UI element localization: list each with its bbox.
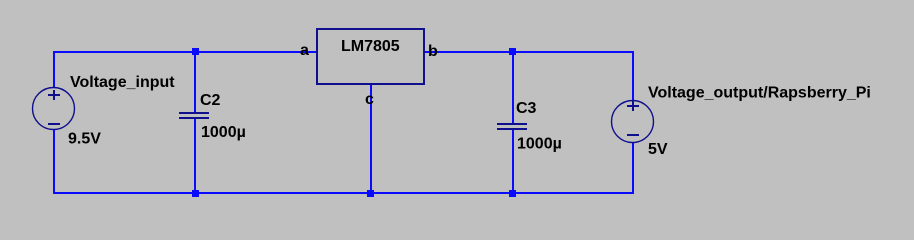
- op-amp U1 LM7805 regulator box: [317, 29, 424, 84]
- svg-text:a: a: [300, 42, 309, 59]
- wire top rail from V1 to node b corner: [53, 51, 634, 53]
- svg-text:5V: 5V: [648, 141, 668, 158]
- svg-text:Voltage_output/Rapsberry_Pi: Voltage_output/Rapsberry_Pi: [648, 85, 871, 102]
- wire V2 bottom lead: [632, 143, 634, 194]
- svg-text:Voltage_input: Voltage_input: [70, 74, 175, 91]
- svg-text:LM7805: LM7805: [341, 38, 400, 55]
- node junction pin c bottom: [367, 190, 374, 197]
- svg-text:C3: C3: [516, 100, 537, 117]
- wire C3 top lead: [512, 51, 514, 124]
- wire bottom ground rail: [53, 192, 634, 194]
- node junction C3 top: [509, 48, 516, 55]
- voltage source V1 circle: [33, 88, 75, 130]
- capacitor C2 plates: [179, 112, 209, 119]
- svg-text:1000µ: 1000µ: [517, 136, 562, 153]
- wire C3 bottom lead: [512, 130, 514, 194]
- svg-text:1000µ: 1000µ: [201, 124, 246, 141]
- wire C2 bottom lead: [194, 119, 196, 194]
- svg-text:C2: C2: [200, 92, 221, 109]
- wire V2 top lead: [632, 51, 634, 101]
- svg-text:c: c: [365, 91, 374, 108]
- wire V1 top lead: [53, 51, 55, 88]
- node junction C2 top: [192, 48, 199, 55]
- node junction C2 bottom: [192, 190, 199, 197]
- wire C2 top lead: [194, 51, 196, 113]
- capacitor C3 plates: [497, 123, 527, 130]
- voltage source V2 circle: [612, 101, 654, 143]
- wire U1 pin c lead: [370, 83, 372, 194]
- svg-text:9.5V: 9.5V: [68, 131, 101, 148]
- svg-text:b: b: [428, 43, 438, 60]
- node junction C3 bottom: [509, 190, 516, 197]
- wire V1 bottom lead: [53, 130, 55, 194]
